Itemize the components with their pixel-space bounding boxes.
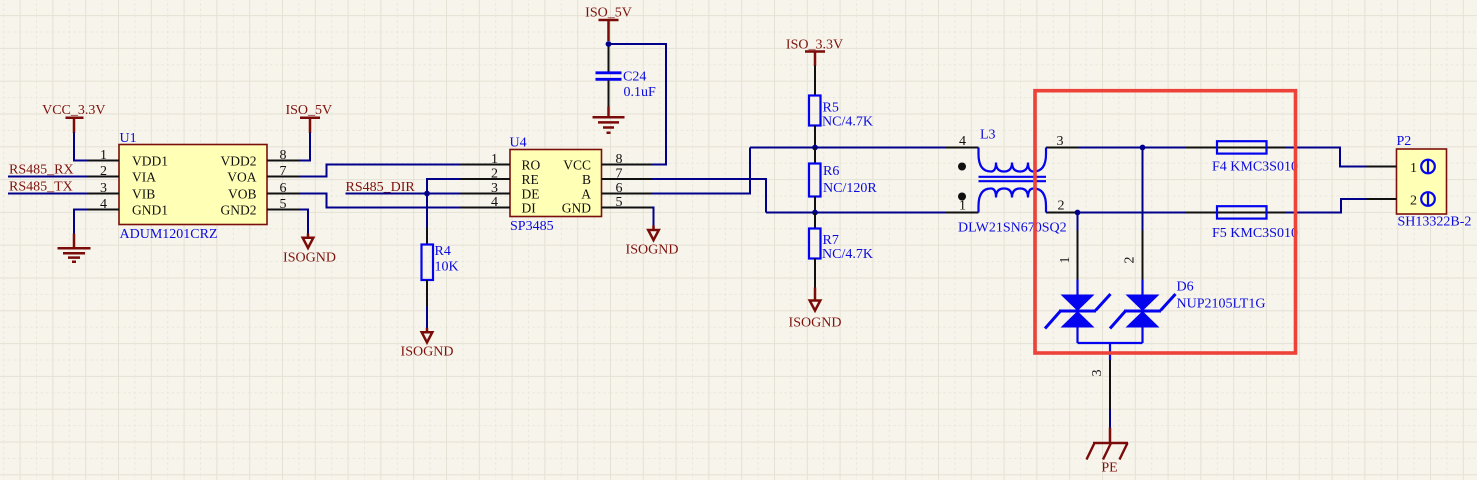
svg-text:VIB: VIB: [132, 187, 155, 202]
pin 6 U1 VOB: [228, 181, 300, 202]
pin 8 U1 VDD2: [221, 148, 300, 169]
svg-text:2: 2: [1410, 194, 1417, 209]
pin 6 U4 A: [581, 181, 652, 202]
svg-text:P2: P2: [1397, 134, 1412, 149]
svg-text:L3: L3: [980, 128, 996, 143]
svg-text:8: 8: [616, 152, 623, 167]
pin 1 P2: [1367, 160, 1435, 177]
svg-text:ISOGND: ISOGND: [283, 251, 336, 266]
pin 1 U1 VDD1: [87, 148, 168, 169]
svg-text:6: 6: [616, 181, 623, 196]
svg-text:NC/4.7K: NC/4.7K: [822, 247, 873, 262]
TVS diode D6 element 2: [1110, 280, 1176, 344]
pin 7 U4 B: [582, 167, 652, 188]
wire L3 pin3 to F4: [1079, 147, 1187, 149]
pin 5 U4 GND: [562, 195, 652, 216]
ground GND1: [58, 234, 91, 262]
svg-text:7: 7: [616, 167, 623, 182]
svg-text:NC/120R: NC/120R: [823, 181, 877, 196]
wire D6 pin1 from bottom bus: [1077, 213, 1079, 232]
svg-text:DE: DE: [522, 187, 540, 202]
wire D6 pin2 from top bus: [1142, 148, 1144, 232]
svg-text:2: 2: [1058, 199, 1065, 214]
L3 polarity dot pin4: [958, 163, 966, 171]
wire U1 pin7 VOA to U4 pin1 RO: [299, 165, 461, 177]
pin 2 L3: [1046, 199, 1079, 214]
power port ISO_3.3V: [786, 38, 843, 67]
svg-text:ISO_5V: ISO_5V: [285, 103, 332, 118]
svg-text:1: 1: [100, 148, 107, 163]
svg-text:R5: R5: [823, 101, 839, 116]
power port ISOGND (R7): [789, 288, 842, 331]
power port ISOGND (U4 pin5): [626, 226, 679, 258]
resistor R5: [809, 66, 873, 148]
connector P2 SH13322B-2 body: [1397, 134, 1472, 230]
svg-text:3: 3: [491, 181, 498, 196]
L3 bottom winding: [979, 189, 1047, 213]
resistor R7: [809, 213, 873, 289]
pin 7 U1 VOA: [227, 164, 299, 185]
power port VCC_3.3V: [42, 103, 105, 133]
svg-text:VDD1: VDD1: [132, 154, 168, 169]
resistor R6: [809, 148, 877, 213]
power port ISO_5V (above C24): [585, 6, 632, 42]
svg-text:VOB: VOB: [228, 187, 257, 202]
wire U1 pin6 VOB to U4 pin4 DI: [299, 194, 461, 208]
wire ISO_5V junction to U4 pin8: [609, 44, 667, 165]
op-amp U4 SP3485 body: [510, 136, 602, 235]
junction bottom bus / D6 pin1: [1075, 210, 1081, 216]
pin 4 U1 GND1: [87, 197, 168, 218]
fuse F4 KMC3S010: [1185, 141, 1298, 174]
svg-text:GND: GND: [562, 201, 591, 216]
junction R5/R6 on top bus: [812, 145, 818, 151]
svg-text:NC/4.7K: NC/4.7K: [822, 114, 873, 129]
svg-text:8: 8: [280, 148, 287, 163]
pin 2 U4 RE: [461, 167, 539, 188]
op-amp U1 ADUM1201CRZ body: [119, 131, 267, 242]
svg-text:2: 2: [491, 167, 498, 182]
svg-text:PE: PE: [1101, 461, 1117, 476]
wire R4 to ISOGND: [426, 307, 428, 329]
pin 5 U1 GND2: [221, 197, 300, 218]
svg-text:0.1uF: 0.1uF: [624, 85, 657, 100]
svg-text:F4 KMC3S010: F4 KMC3S010: [1212, 160, 1298, 175]
pin 3 U4 DE: [461, 181, 540, 202]
wire VCC_3.3V to U1 pin1: [74, 133, 88, 161]
svg-text:ISOGND: ISOGND: [401, 345, 454, 360]
capacitor C24: [596, 47, 657, 107]
pin 3 L3: [1046, 134, 1079, 149]
junction top bus / D6 pin2: [1140, 145, 1146, 151]
svg-text:3: 3: [1057, 134, 1064, 149]
pin 4 U4 DI: [461, 195, 537, 216]
svg-text:ISOGND: ISOGND: [789, 316, 842, 331]
svg-text:GND1: GND1: [132, 203, 168, 218]
red highlight box around protection circuit: [1035, 91, 1296, 353]
resistor R4: [422, 228, 459, 308]
wire U4 pin2 RE down to R4: [427, 179, 461, 228]
wire F4 to P2 pin1: [1286, 148, 1367, 167]
power port PE earth ground: [1087, 428, 1129, 476]
wire RS485_TX to U1 pin3: [8, 193, 88, 195]
inductor L3 DLW21SN670SQ2 common-mode choke: [958, 128, 1067, 236]
svg-text:ISOGND: ISOGND: [626, 243, 679, 258]
wire U1 pin4 to ground: [74, 210, 88, 235]
svg-text:RS485_TX: RS485_TX: [9, 180, 73, 195]
svg-text:DLW21SN670SQ2: DLW21SN670SQ2: [958, 221, 1067, 236]
pin 1 D6: [1058, 231, 1078, 281]
svg-text:RE: RE: [522, 172, 539, 187]
svg-text:SP3485: SP3485: [510, 219, 554, 234]
svg-text:5: 5: [616, 195, 623, 210]
svg-text:1: 1: [959, 199, 966, 214]
pin 1 U4 RO: [461, 152, 541, 173]
power port ISOGND (R4): [401, 328, 454, 360]
svg-text:R7: R7: [823, 233, 839, 248]
pin 2 D6: [1123, 231, 1143, 281]
svg-text:4: 4: [100, 197, 107, 212]
svg-text:1: 1: [1410, 161, 1417, 176]
svg-text:NUP2105LT1G: NUP2105LT1G: [1177, 297, 1266, 312]
svg-text:ADUM1201CRZ: ADUM1201CRZ: [120, 227, 218, 242]
wire U1 pin5 to ISOGND: [299, 210, 308, 235]
diode D6 NUP2105LT1G labels: [1177, 280, 1266, 312]
wire L3 pin2 to F5: [1078, 212, 1187, 214]
svg-text:1: 1: [491, 152, 498, 167]
wire D6 pin3 to PE: [1109, 410, 1111, 429]
junction R6/R7 on bottom bus: [812, 210, 818, 216]
wire junction down to C24: [608, 44, 610, 48]
svg-text:D6: D6: [1177, 280, 1194, 295]
wire F5 to P2 pin2: [1286, 199, 1367, 213]
svg-text:VCC_3.3V: VCC_3.3V: [42, 103, 105, 118]
svg-text:A: A: [581, 187, 591, 202]
svg-text:2: 2: [100, 164, 107, 179]
pin 1 L3: [946, 199, 979, 214]
svg-text:VIA: VIA: [132, 170, 156, 185]
svg-text:1: 1: [1058, 257, 1073, 264]
L3 core lines: [979, 177, 1047, 181]
L3 top winding: [979, 148, 1047, 172]
svg-text:F5 KMC3S010: F5 KMC3S010: [1212, 226, 1298, 241]
fuse F5 KMC3S010: [1185, 206, 1298, 241]
wire RS485_RX to U1 pin2: [8, 176, 88, 178]
svg-text:RS485_RX: RS485_RX: [9, 163, 74, 178]
svg-text:DI: DI: [522, 201, 537, 216]
svg-text:U4: U4: [510, 136, 527, 151]
svg-text:VDD2: VDD2: [221, 154, 257, 169]
pin 3 D6: [1090, 360, 1110, 410]
svg-text:GND2: GND2: [221, 203, 257, 218]
svg-text:4: 4: [491, 195, 498, 210]
wire RS485_DIR to U4 pin3 DE: [346, 193, 462, 195]
svg-text:C24: C24: [623, 70, 646, 85]
svg-text:3: 3: [100, 181, 107, 196]
svg-text:B: B: [582, 172, 591, 187]
pin 2 U1 VIA: [87, 164, 156, 185]
svg-text:4: 4: [959, 134, 966, 149]
svg-text:VCC: VCC: [563, 158, 591, 173]
wire bottom bus: [766, 212, 946, 214]
svg-text:5: 5: [280, 197, 287, 212]
power port ISO_5V (above U1 pin 8): [285, 103, 332, 133]
wire top bus: [750, 147, 946, 149]
power port ISOGND (U1 pin5): [283, 234, 336, 266]
pin 8 U4 VCC: [563, 152, 652, 173]
junction ISO_5V / C24: [606, 41, 612, 47]
pin 4 L3: [946, 134, 979, 149]
ground ISOGND (C24): [593, 107, 625, 133]
wire ISO_5V to U1 pin8: [299, 133, 310, 161]
wire U4 pin7 B to bottom bus: [652, 179, 767, 213]
wire D6 common to pin3: [1078, 343, 1143, 360]
svg-text:SH13322B-2: SH13322B-2: [1398, 215, 1472, 230]
TVS diode D6 element 1: [1045, 280, 1111, 344]
junction RS485_DIR / R4: [424, 191, 430, 197]
svg-text:VOA: VOA: [227, 170, 256, 185]
svg-text:RO: RO: [522, 158, 541, 173]
pin 2 P2: [1367, 192, 1435, 209]
pin 3 U1 VIB: [87, 181, 155, 202]
wire U4 pin5 GND to ISOGND: [652, 208, 654, 227]
wire U4 pin6 A to top bus: [652, 148, 751, 194]
svg-text:2: 2: [1123, 257, 1138, 264]
svg-text:R6: R6: [823, 164, 839, 179]
svg-text:ISO_5V: ISO_5V: [585, 6, 632, 21]
svg-text:3: 3: [1090, 370, 1105, 377]
svg-text:7: 7: [280, 164, 287, 179]
svg-text:6: 6: [280, 181, 287, 196]
svg-text:R4: R4: [435, 244, 451, 259]
svg-text:10K: 10K: [435, 260, 459, 275]
L3 polarity dot pin1: [958, 193, 966, 201]
